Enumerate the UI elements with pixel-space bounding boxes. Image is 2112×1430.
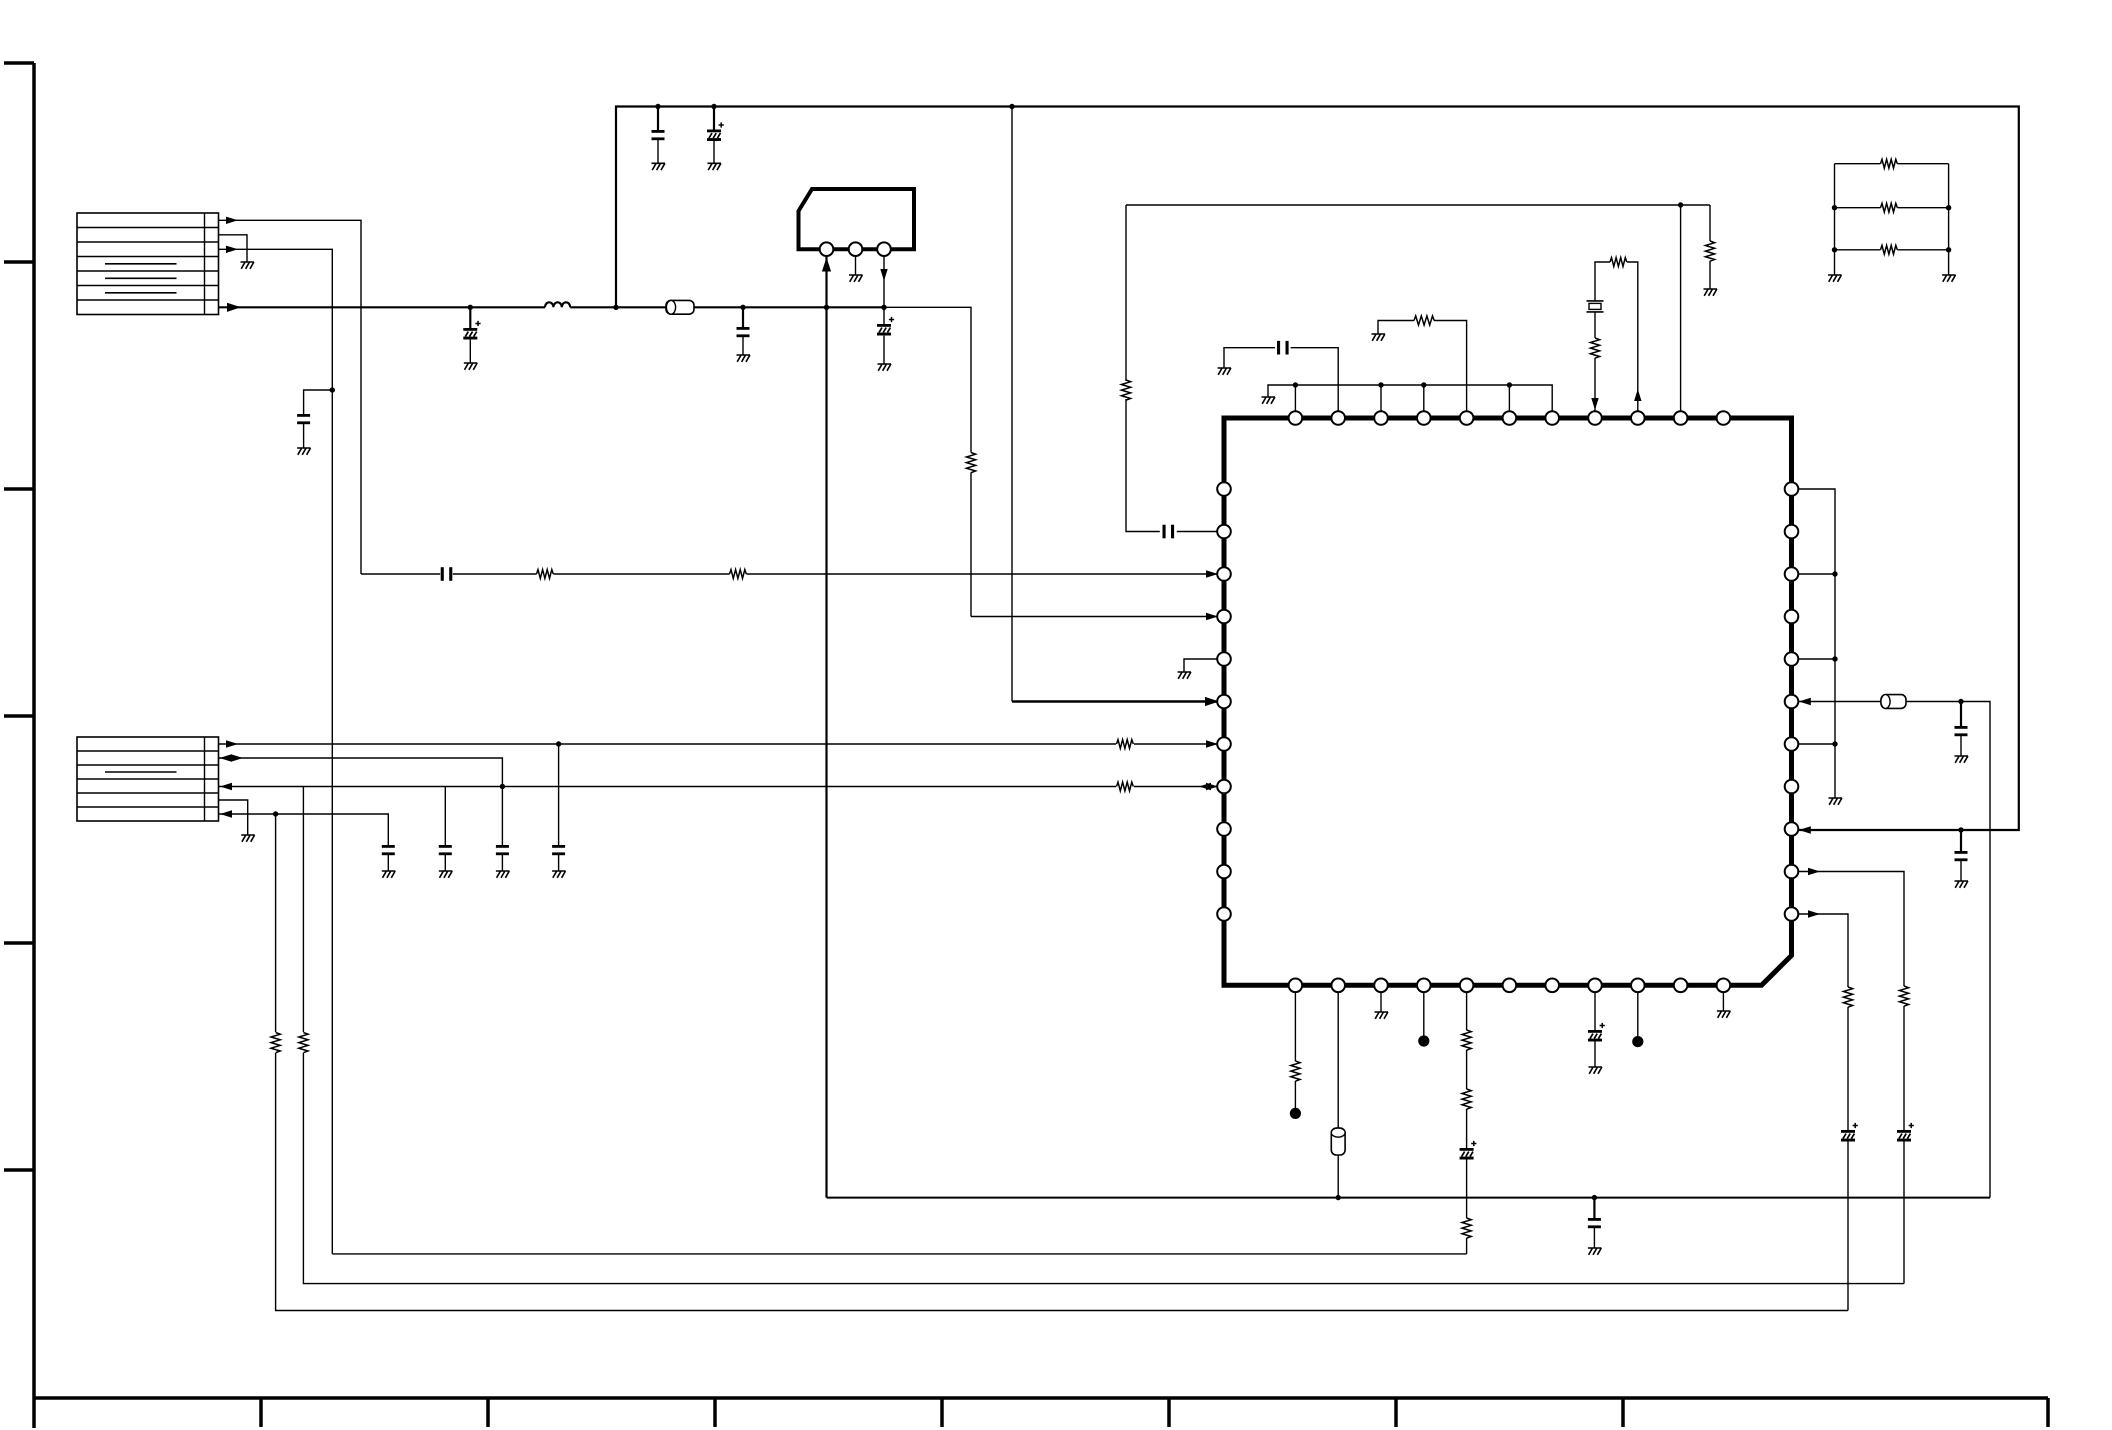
- node bold-vertical crossing: [824, 305, 829, 310]
- wire CN2 pin5 to ground: [219, 800, 248, 835]
- node CN2 pin1 cap junction: [556, 741, 561, 746]
- resistor R13: [1899, 986, 1908, 1006]
- wire IC pin L5 to ground: [1184, 659, 1217, 672]
- wire CN1 pin3 vertical rail: [219, 249, 333, 1254]
- ground C22: [1955, 881, 1969, 888]
- ground B3: [1375, 1012, 1389, 1019]
- wire crystal network T8-T9: [1595, 262, 1638, 411]
- ground array right: [1942, 275, 1956, 282]
- node bus T1: [1293, 382, 1298, 387]
- capacitor C23 (electrolytic): [1841, 1130, 1855, 1142]
- node top rail C2: [711, 104, 716, 109]
- resistor R22: [1462, 1089, 1471, 1109]
- arrow into IC pin R9: [1799, 826, 1811, 833]
- IC U1 body: [1224, 418, 1792, 985]
- capacitor C18 (electrolytic): [1460, 1148, 1474, 1160]
- wire return rail from CN2 pin4: [303, 787, 1904, 1284]
- wire CN2 pin6: [219, 814, 389, 845]
- capacitor C3 series: [441, 567, 453, 581]
- ground C21: [1955, 756, 1969, 763]
- resistor R4 vertical: [966, 453, 975, 473]
- ground R6b: [1704, 289, 1718, 296]
- crystal X1: [1587, 301, 1604, 312]
- wire IC pin B4 test point: [1423, 992, 1425, 1041]
- IC U1 top pins 1-11: [1289, 411, 1731, 425]
- node bus T3: [1378, 382, 1383, 387]
- wire IC pin R6 loop to U2 pin1: [1799, 702, 1990, 1198]
- resistor R8: [1117, 782, 1134, 791]
- ferrite bead FB3: [1331, 1128, 1345, 1155]
- wire IC pin B5 chain: [1466, 992, 1468, 1254]
- resistor R20: [1291, 1061, 1300, 1081]
- test point TP1: [1290, 1108, 1301, 1119]
- capacitor C21: [1960, 702, 1962, 727]
- resistor R9: [1414, 316, 1434, 325]
- node top rail C1: [655, 104, 660, 109]
- resistor R11: [1610, 258, 1627, 267]
- test point TP2: [1418, 1035, 1429, 1046]
- frame bottom border: [34, 1396, 2048, 1400]
- wire IC pin B3 to ground: [1380, 992, 1382, 1012]
- ground C13: [496, 871, 510, 878]
- wire to IC pin L4: [971, 616, 1217, 618]
- node cap tap on CN1 pin3 rail: [330, 387, 335, 392]
- node rail R5: [1832, 656, 1837, 661]
- ground B11: [1717, 1011, 1731, 1018]
- node top rail drop to IC pin L6: [1009, 104, 1014, 109]
- wire CN2 pin2: [219, 758, 503, 787]
- wire top decoupling bus: [1268, 385, 1552, 411]
- ground T2 chain: [1218, 368, 1232, 375]
- wire IC pin B8 chain: [1594, 992, 1596, 1067]
- ground C4: [297, 448, 311, 455]
- resistor R21: [1462, 1030, 1471, 1050]
- wire IC pin B9 test point: [1637, 992, 1639, 1042]
- wire return rail from CN2 pin6: [276, 814, 1848, 1311]
- wire U2 pin1 feedback rail (bold): [825, 257, 827, 1198]
- ground C20: [1588, 1248, 1602, 1255]
- wire IC pin R11 output chain: [1798, 914, 1848, 1311]
- wire IC pin T10 to sense node: [1680, 205, 1682, 411]
- ground C11: [382, 871, 396, 878]
- connector CN2: [77, 737, 219, 821]
- node return wire bead tap: [1336, 1195, 1341, 1200]
- ground array left: [1828, 275, 1842, 282]
- frame bottom ticks: [261, 1398, 2048, 1427]
- IC U1 right pins 1-11: [1785, 482, 1799, 921]
- node return wire cap tap: [1592, 1195, 1597, 1200]
- node bus-cap2 junction: [740, 305, 745, 310]
- ground CN1 pin2: [241, 262, 255, 269]
- wire U2 pin3 to bus node: [883, 256, 885, 305]
- node row4-row2 junction: [500, 784, 505, 789]
- pin 2 of U2: [849, 242, 863, 256]
- ground C5: [464, 363, 478, 370]
- ground CN2 pin5: [241, 835, 255, 842]
- ground T5 chain: [1372, 334, 1386, 341]
- capacitor C20: [1593, 1198, 1595, 1218]
- capacitor C14: [558, 744, 560, 871]
- resistor R6b to ground: [1709, 205, 1711, 289]
- wire IC pin B2 to return: [1337, 992, 1339, 1198]
- node cap tap near IC pin R9: [1958, 827, 1963, 832]
- IC U1 bottom pins 1-11: [1289, 979, 1731, 993]
- resistor R1: [537, 570, 554, 579]
- IC U1 left pins 1-11: [1217, 482, 1231, 921]
- capacitor C5 (electrolytic) on bus: [469, 307, 471, 328]
- wire CN2 pin1 to IC pin L7: [219, 743, 1218, 745]
- regulator U2: [799, 189, 915, 249]
- capacitor C24 (electrolytic): [1897, 1130, 1911, 1142]
- wire CN1 pin7 audio bus (bold): [219, 306, 885, 308]
- resistor R7: [1117, 740, 1134, 749]
- capacitor C7 (electrolytic) at node: [883, 307, 885, 364]
- capacitor C13: [501, 787, 503, 872]
- capacitor C6 on bus: [742, 307, 744, 327]
- ground C7: [878, 364, 892, 371]
- ground C1: [652, 163, 666, 170]
- wire top supply rail: [616, 107, 2019, 831]
- capacitor C4: [304, 390, 333, 448]
- wire drop to IC pin L6: [1011, 107, 1013, 702]
- test point TP3: [1632, 1036, 1643, 1047]
- ground C14: [552, 871, 566, 878]
- wire resistor chain to IC pin T5: [1378, 321, 1467, 412]
- ground C6: [737, 355, 751, 362]
- pin 1 of U2: [820, 242, 834, 256]
- capacitor C1: [657, 107, 659, 131]
- wire Vcc sense to IC pin L2: [1126, 205, 1710, 532]
- node bus T4: [1421, 382, 1426, 387]
- capacitor C12: [444, 787, 446, 872]
- wire right decoupling rail R1-R3-R5-R7: [1798, 489, 1835, 798]
- wire IC pin B1 chain: [1294, 992, 1296, 1113]
- ground U2 pin2: [849, 275, 863, 282]
- resistor R23: [1462, 1218, 1471, 1238]
- wire CN1 pin2 to ground: [219, 235, 248, 262]
- resistor R10: [1590, 338, 1599, 358]
- node top-wire drop junction: [613, 305, 618, 310]
- resistor R2: [730, 570, 747, 579]
- ground C12: [439, 871, 453, 878]
- node bus-cap junction: [468, 305, 473, 310]
- ferrite bead FB1: [666, 300, 694, 314]
- capacitor C11: [387, 855, 389, 871]
- node row6 junction: [273, 811, 278, 816]
- node rail R7: [1832, 741, 1837, 746]
- ground B8: [1589, 1067, 1603, 1074]
- ferrite bead FB2: [1881, 695, 1906, 709]
- capacitor C2 (electrolytic): [713, 107, 715, 130]
- resistor R19: [271, 1033, 280, 1053]
- ground bus left end: [1262, 397, 1276, 404]
- node sense tap IC pin T10: [1678, 202, 1683, 207]
- wire node to resistor rail: [884, 307, 971, 616]
- frame left border: [32, 63, 36, 1428]
- capacitor C22: [1960, 830, 1962, 851]
- ground C2: [708, 163, 722, 170]
- resistor R12: [1843, 987, 1852, 1007]
- ground right rail: [1829, 798, 1843, 805]
- wire return rail bottom from CN1 pin3: [332, 1253, 1466, 1255]
- node rail R3: [1832, 571, 1837, 576]
- wire CN1 pin1 chain to IC pin L3: [361, 573, 1217, 575]
- node regulator pin3 junction: [881, 305, 886, 310]
- node R6 cap tap: [1958, 699, 1963, 704]
- wire IC pin B11 to ground: [1722, 992, 1724, 1011]
- wire CN2 pin4 to IC pin L8: [219, 786, 1218, 788]
- resistor R18: [299, 1033, 308, 1053]
- connector CN1: [77, 213, 219, 315]
- pin 3 of U2: [877, 242, 891, 256]
- wire cap chain to IC pin T2: [1224, 348, 1338, 411]
- frame left tick row: [4, 63, 34, 1170]
- resistor array R14 R15 R16: [1832, 159, 1952, 275]
- wire IC pin R10 output chain: [1798, 872, 1904, 1284]
- capacitor C16 series: [1277, 341, 1289, 355]
- wire CN1 pin1 to node A: [219, 220, 362, 574]
- resistor R5: [1121, 380, 1130, 400]
- ground L5: [1178, 672, 1192, 679]
- capacitor C15 series: [1163, 525, 1175, 539]
- node bus T6: [1507, 382, 1512, 387]
- wire U2 pin2 to ground: [855, 256, 857, 275]
- capacitor C19 (electrolytic): [1588, 1030, 1602, 1042]
- inductor L1: [545, 302, 570, 307]
